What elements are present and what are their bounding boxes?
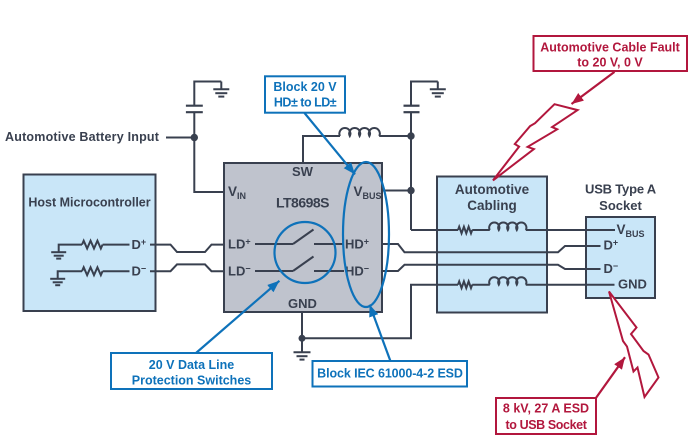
wire twisted pair HD+ to USB D+ <box>382 244 601 252</box>
svg-text:Socket: Socket <box>599 198 642 213</box>
svg-text:GND: GND <box>288 296 317 311</box>
highlight ellipse around VBUS HD pins <box>343 162 389 307</box>
wire LD+ to switch S1 <box>255 243 293 245</box>
arrow callout to VBUS ellipse top <box>305 113 356 174</box>
wire L1 to SW junction <box>379 135 411 137</box>
wire R2 to D- label <box>103 270 130 272</box>
ground G1 <box>213 82 229 97</box>
wire S1 to HD+ <box>314 243 344 245</box>
ground G4 <box>51 252 66 258</box>
wire L2 to USB VBUS pin <box>526 229 615 231</box>
junction VBUS node <box>407 187 414 194</box>
svg-text:20 V Data Line: 20 V Data Line <box>149 358 234 372</box>
wire S2 to HD- <box>314 270 344 272</box>
svg-text:Automotive: Automotive <box>455 182 530 197</box>
switch S1 <box>293 230 314 245</box>
wire host D- from ground to resistor <box>58 271 82 279</box>
svg-text:Block 20 V: Block 20 V <box>273 80 337 94</box>
inductor L3 cable GND <box>489 277 526 285</box>
lightning bolt cable fault <box>493 104 578 180</box>
capacitor C1 <box>186 106 203 113</box>
inductor L1 <box>339 128 379 136</box>
svg-text:8 kV, 27 A ESD: 8 kV, 27 A ESD <box>503 402 589 416</box>
svg-text:Block IEC 61000-4-2 ESD: Block IEC 61000-4-2 ESD <box>317 367 463 381</box>
switch S2 <box>293 257 314 272</box>
wire LD- to switch S2 <box>255 270 293 272</box>
wire R4 to L3 <box>472 284 490 286</box>
svg-text:Automotive Cable Fault: Automotive Cable Fault <box>540 41 680 55</box>
label USB Type A Socket <box>585 182 657 214</box>
wire GND junction to cable resistor <box>302 285 458 339</box>
wire twisted pair D+ host to LD+ <box>150 245 224 252</box>
svg-text:GND: GND <box>618 277 647 292</box>
wire host D+ from ground to resistor <box>59 245 82 253</box>
automotive cabling box <box>437 177 547 313</box>
svg-text:SW: SW <box>292 164 314 179</box>
IC U1 LT8698S box <box>224 163 382 312</box>
arrow callout to VBUS ellipse bottom <box>370 305 391 362</box>
arrow callout to ESD bolt <box>596 357 625 398</box>
wire junction up to capacitor C2 <box>410 112 412 136</box>
junction SW node <box>407 132 414 139</box>
wire VBUS vertical bus <box>410 136 412 230</box>
junction battery node <box>191 134 198 141</box>
callout box 20 V data line protection switches <box>111 353 272 389</box>
svg-text:HD± to LD±: HD± to LD± <box>274 96 337 110</box>
resistor R2 host D- <box>82 267 103 275</box>
resistor R4 cable GND <box>458 281 472 288</box>
svg-text:USB Type A: USB Type A <box>585 182 657 197</box>
ground G3 <box>294 338 311 359</box>
svg-text:Automotive Battery Input: Automotive Battery Input <box>5 130 160 144</box>
wire battery input to junction <box>166 137 194 139</box>
wire L3 to USB GND pin <box>526 284 615 286</box>
svg-text:Host Microcontroller: Host Microcontroller <box>28 196 150 210</box>
wire R1 to D+ label <box>103 244 130 246</box>
wire twisted pair HD- to USB D- <box>382 265 601 271</box>
svg-text:to 20 V, 0 V: to 20 V, 0 V <box>577 56 643 70</box>
wire SW pin up and right <box>303 136 340 163</box>
svg-text:Protection Switches: Protection Switches <box>132 374 252 388</box>
wire C2 to ground G2 <box>411 82 438 106</box>
wire twisted pair D- host to LD- <box>150 264 224 271</box>
callout box automotive cable fault <box>534 36 688 71</box>
inductor L2 cable VBUS <box>489 222 526 230</box>
ground G2 <box>430 82 446 97</box>
wire junction to VIN pin <box>194 138 224 193</box>
host microcontroller box <box>24 175 156 312</box>
callout box Block 20 V HD to LD <box>265 76 345 112</box>
wire C1 to ground G1 <box>194 82 221 106</box>
svg-text:to USB Socket: to USB Socket <box>506 418 588 432</box>
wire junction up to capacitor C1 <box>193 112 195 137</box>
callout box 8 kV 27 A ESD <box>496 398 596 434</box>
wire VBUS pin stub <box>382 190 411 192</box>
callout box Block IEC 61000-4-2 ESD <box>313 361 468 387</box>
wire GND pin down <box>301 312 303 338</box>
junction GND node <box>299 335 306 342</box>
wire R3 to L2 <box>472 229 490 231</box>
capacitor C2 <box>404 106 420 113</box>
USB type A socket box <box>586 217 655 298</box>
svg-text:LT8698S: LT8698S <box>276 195 329 211</box>
wire VBUS to cable resistor <box>411 229 458 231</box>
label Automotive Cabling <box>455 182 530 213</box>
highlight circle around switches <box>275 222 336 283</box>
ground G5 <box>50 279 65 285</box>
lightning bolt ESD strike <box>609 292 659 398</box>
arrow callout to fault bolt <box>572 72 615 104</box>
svg-text:Cabling: Cabling <box>467 198 517 213</box>
resistor R1 host D+ <box>82 241 103 249</box>
arrow callout to switch circle <box>196 281 279 353</box>
resistor R3 cable VBUS <box>458 227 472 234</box>
